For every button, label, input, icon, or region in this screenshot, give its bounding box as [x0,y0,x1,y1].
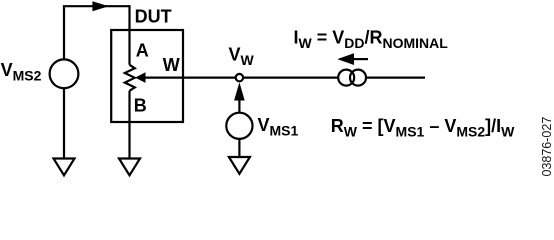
svg-text:03876-027: 03876-027 [540,117,554,177]
svg-text:W: W [163,55,180,75]
svg-text:A: A [136,41,149,61]
svg-text:B: B [134,96,147,116]
svg-text:DUT: DUT [135,6,172,26]
svg-text:IW = VDD/RNOMINAL: IW = VDD/RNOMINAL [294,27,449,51]
svg-text:VMS1: VMS1 [258,115,299,139]
svg-text:VW: VW [229,45,255,68]
svg-text:VMS2: VMS2 [1,60,42,84]
svg-text:RW = [VMS1 – VMS2]/IW: RW = [VMS1 – VMS2]/IW [331,116,515,140]
